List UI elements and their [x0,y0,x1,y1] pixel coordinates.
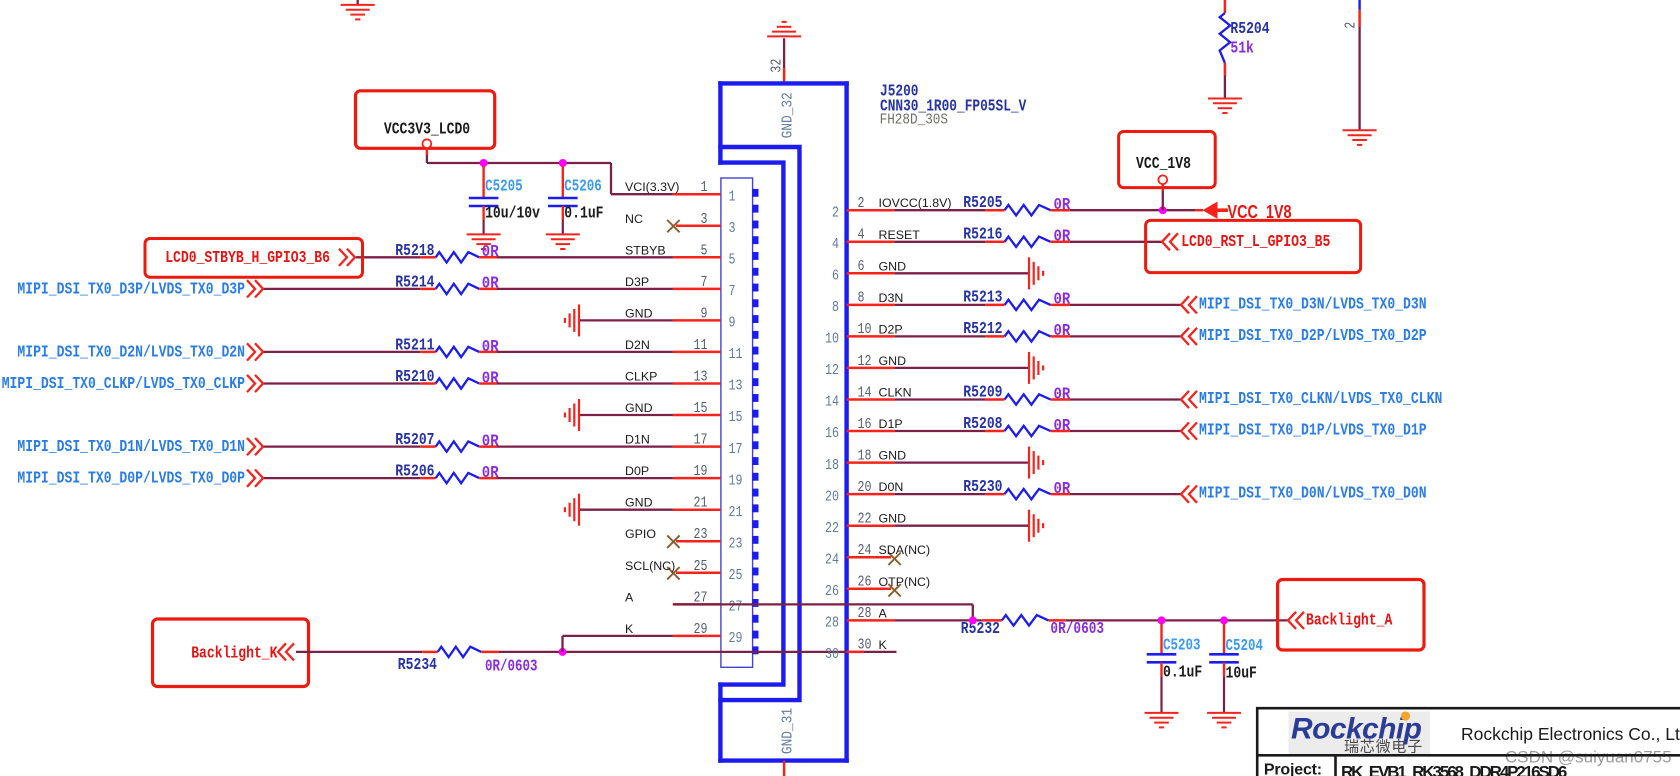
pin 29 K [673,635,721,638]
svg-text:0R: 0R [1054,227,1071,246]
wire [895,335,986,337]
wire VCC_1V8 port to rail [1162,184,1165,191]
wire [497,256,673,258]
svg-text:GND: GND [625,401,653,415]
wire [263,382,420,384]
svg-text:27: 27 [729,599,743,616]
svg-text:MIPI_DSI_TX0_D0N/LVDS_TX0_D0N: MIPI_DSI_TX0_D0N/LVDS_TX0_D0N [1199,484,1427,503]
svg-text:26: 26 [825,583,839,600]
svg-text:28: 28 [858,605,872,622]
svg-text:MIPI_DSI_TX0_CLKP/LVDS_TX0_CLK: MIPI_DSI_TX0_CLKP/LVDS_TX0_CLKP [2,374,245,393]
svg-text:3: 3 [701,211,708,228]
net label MIPI_DSI_TX0_CLKN/LVDS_TX0_CLKN [1181,391,1189,408]
svg-text:32: 32 [769,59,786,73]
connector J5200 outline [718,81,849,763]
svg-text:0R: 0R [482,463,499,482]
wire to Backlight_A [1066,619,1288,621]
net label MIPI_DSI_TX0_D0N/LVDS_TX0_D0N [1181,486,1189,503]
svg-text:8: 8 [858,290,865,307]
svg-text:D0P: D0P [625,464,649,478]
svg-text:K: K [879,638,888,652]
wire pin32 to ground [783,38,785,68]
svg-text:8: 8 [832,299,839,316]
resistor R5213 [985,304,1004,307]
wire [579,509,673,511]
svg-text:28: 28 [825,615,839,632]
svg-text:0R: 0R [482,274,499,293]
svg-text:D2N: D2N [625,338,650,352]
power arrow VCC_1V8 [1203,202,1218,219]
wire RESET to LCD0_RST [1070,241,1162,243]
svg-text:A: A [625,590,634,604]
svg-text:A: A [879,606,888,620]
svg-text:VCC_1V8: VCC_1V8 [1228,202,1292,222]
svg-text:GND: GND [879,354,907,368]
pin 13 CLKP [673,382,721,385]
off-page connector Backlight_A [1278,580,1424,651]
svg-text:6: 6 [858,258,865,275]
wire [895,493,986,495]
svg-text:24: 24 [858,542,872,559]
svg-text:17: 17 [694,432,708,449]
pin 18 GND [847,461,895,464]
wire [263,351,420,353]
pin 5 STBYB [673,256,721,259]
svg-text:11: 11 [694,337,708,354]
svg-text:30: 30 [858,637,872,654]
svg-text:2: 2 [1343,22,1360,29]
svg-text:D2P: D2P [879,322,903,336]
svg-text:0.1uF: 0.1uF [564,204,603,223]
svg-text:20: 20 [858,479,872,496]
svg-text:C5206: C5206 [564,177,602,196]
svg-text:GND: GND [625,306,653,320]
wire [579,414,673,416]
wire [895,430,986,432]
ground [1028,510,1030,542]
svg-text:GND: GND [879,259,907,273]
pin 11 D2N [673,351,721,354]
pin 27 A [673,603,721,606]
pin 7 D3P [673,288,721,291]
svg-text:MIPI_DSI_TX0_D2N/LVDS_TX0_D2N: MIPI_DSI_TX0_D2N/LVDS_TX0_D2N [17,342,245,361]
resistor R5204 [1224,0,1227,13]
ground (top left) [357,0,359,5]
resistor R5214 [420,288,435,291]
wire [1070,493,1181,495]
svg-text:10uF: 10uF [1226,664,1257,683]
svg-text:17: 17 [729,441,743,458]
svg-text:13: 13 [694,369,708,386]
svg-text:0R: 0R [1054,384,1071,403]
wire [895,398,986,400]
connector pin contacts (dashed) [752,189,758,654]
svg-text:GND: GND [879,449,907,463]
resistor R5205 [985,209,1004,212]
svg-text:11: 11 [729,346,743,363]
junction node VCC_1V8 [1159,206,1167,214]
pin 23 GPIO [676,540,720,543]
svg-text:Backlight_A: Backlight_A [1306,611,1392,630]
connector J5200 inner pin body [721,178,753,667]
svg-text:R5232: R5232 [961,619,1000,638]
pin 25 SCL(NC) [676,572,720,575]
pin 15 GND [673,414,721,417]
ground [1028,257,1030,289]
wire K net [499,651,897,653]
svg-text:5: 5 [729,252,736,269]
svg-text:26: 26 [858,574,872,591]
ground (top right) [1343,129,1377,131]
svg-text:0R: 0R [482,431,499,450]
resistor R5211 [420,351,435,354]
wire [356,256,420,258]
svg-text:VCC_1V8: VCC_1V8 [1136,154,1191,173]
resistor R5208 [985,430,1004,433]
ground [578,304,580,336]
svg-text:5: 5 [701,242,708,259]
svg-text:LCD0_STBYB_H_GPIO3_B6: LCD0_STBYB_H_GPIO3_B6 [165,248,330,267]
pin 28 A [847,619,895,622]
svg-text:14: 14 [858,384,872,401]
svg-text:1: 1 [729,188,736,205]
junction node R5232 input [969,616,977,624]
svg-text:MIPI_DSI_TX0_D1N/LVDS_TX0_D1N: MIPI_DSI_TX0_D1N/LVDS_TX0_D1N [17,437,245,456]
resistor R5210 [420,382,435,385]
pin 10 D2P [847,335,895,338]
svg-text:6: 6 [832,268,839,285]
pin 14 CLKN [847,398,895,401]
resistor R5234 [296,651,422,653]
svg-text:GND: GND [625,496,653,510]
capacitor C5205 [482,166,484,198]
wire rail to pin 1 [610,163,612,194]
wire [895,304,986,306]
svg-text:OTP(NC): OTP(NC) [879,575,931,589]
pin 19 D0P [673,477,721,480]
off-page connector LCD0_RST_L_GPIO3_B5 [1146,220,1361,272]
svg-text:15: 15 [694,400,708,417]
resistor R5209 [985,398,1004,401]
svg-text:25: 25 [729,567,743,584]
wire [895,367,1029,369]
svg-text:SCL(NC): SCL(NC) [625,559,675,573]
junction node K [559,648,567,656]
svg-text:22: 22 [858,511,872,528]
svg-text:29: 29 [729,630,743,647]
svg-text:FH28D_30S: FH28D_30S [880,112,948,129]
svg-text:R5204: R5204 [1230,19,1269,38]
wire [497,382,673,384]
svg-text:4: 4 [832,236,839,253]
ground [578,399,580,431]
svg-text:Rockchip Electronics Co., Ltd: Rockchip Electronics Co., Ltd [1461,724,1680,744]
svg-text:Project:: Project: [1264,762,1322,776]
svg-text:20: 20 [825,488,839,505]
svg-text:C5205: C5205 [485,177,522,196]
pin 31 stub [783,761,786,776]
ground below R5204 [1208,98,1242,100]
svg-text:MIPI_DSI_TX0_D1P/LVDS_TX0_D1P: MIPI_DSI_TX0_D1P/LVDS_TX0_D1P [1199,421,1427,440]
svg-text:D0N: D0N [879,480,904,494]
power port VCC3V3_LCD0 [356,91,495,149]
junction node at C5206 [559,159,567,167]
svg-text:19: 19 [729,472,743,489]
pin 9 GND [673,319,721,322]
svg-text:STBYB: STBYB [625,243,666,257]
pin 17 D1N [673,445,721,448]
svg-text:MIPI_DSI_TX0_D3P/LVDS_TX0_D3P: MIPI_DSI_TX0_D3P/LVDS_TX0_D3P [17,279,245,298]
svg-text:23: 23 [729,536,743,553]
svg-text:16: 16 [858,416,872,433]
wire [895,461,1029,463]
svg-text:10: 10 [858,321,872,338]
resistor R5230 [985,493,1004,496]
svg-text:GND_32: GND_32 [779,92,796,138]
wire to ground (top right) [1358,27,1360,131]
svg-text:12: 12 [825,362,839,379]
svg-text:瑞芯微电子: 瑞芯微电子 [1344,739,1423,756]
wire [497,477,673,479]
svg-text:18: 18 [825,457,839,474]
resistor R5218 [420,256,435,259]
capacitor C5206 [562,166,564,198]
pin 3 NC [676,225,720,228]
pin 22 GND [847,524,895,527]
svg-text:12: 12 [858,353,872,370]
pin 12 GND [847,367,895,370]
svg-text:0R: 0R [482,368,499,387]
svg-text:C5203: C5203 [1163,635,1201,654]
wire VCC3V3_LCD0 to rail [426,148,429,155]
svg-text:0R: 0R [1054,290,1071,309]
junction node at C5204 [1220,616,1228,624]
svg-text:MIPI_DSI_TX0_D0P/LVDS_TX0_D0P: MIPI_DSI_TX0_D0P/LVDS_TX0_D0P [17,469,245,488]
svg-text:RESET: RESET [879,228,921,242]
svg-text:K: K [625,622,634,636]
pin 24 SDA(NC) [847,556,891,559]
svg-text:0R: 0R [1054,479,1071,498]
svg-text:GND: GND [879,512,907,526]
pin 32 stub [783,68,786,83]
svg-text:MIPI_DSI_TX0_D2P/LVDS_TX0_D2P: MIPI_DSI_TX0_D2P/LVDS_TX0_D2P [1199,326,1427,345]
svg-text:15: 15 [729,409,743,426]
pin 8 D3N [847,304,895,307]
pin 2 IOVCC(1.8V) [847,209,895,212]
svg-text:RK_EVB1_RK3568_DDR4P216SD6: RK_EVB1_RK3568_DDR4P216SD6 [1341,763,1567,776]
net label MIPI_DSI_TX0_D2P/LVDS_TX0_D2P [1181,328,1189,345]
title block border [1256,707,1680,776]
pin 6 GND [847,272,895,275]
capacitor C5203 [1160,623,1162,654]
capacitor C5204 [1223,623,1225,654]
Rockchip logo [1289,712,1431,755]
svg-text:VCI(3.3V): VCI(3.3V) [625,180,679,194]
svg-text:0R: 0R [1054,321,1071,340]
wire [895,272,1029,274]
ground [1028,352,1030,384]
wire [579,319,673,321]
svg-text:19: 19 [694,463,708,480]
svg-text:CLKP: CLKP [625,370,657,384]
svg-text:0R: 0R [482,337,499,356]
resistor R5207 [420,445,435,448]
svg-text:Backlight_K: Backlight_K [191,643,277,662]
wire [263,445,420,447]
pin 1 VCI(3.3V) [673,193,721,196]
resistor R5206 [420,477,435,480]
svg-text:0R: 0R [1054,195,1071,214]
svg-text:10: 10 [825,331,839,348]
wire [263,477,420,479]
svg-text:0R: 0R [1054,416,1071,435]
wire [1070,335,1181,337]
svg-text:VCC3V3_LCD0: VCC3V3_LCD0 [384,120,470,139]
svg-text:D1P: D1P [879,417,903,431]
svg-text:0.1uF: 0.1uF [1163,663,1202,682]
pin 20 D0N [847,493,895,496]
wire [497,351,673,353]
svg-text:9: 9 [729,315,736,332]
svg-text:D1N: D1N [625,433,650,447]
svg-text:7: 7 [729,283,736,300]
svg-text:10u/10v: 10u/10v [485,204,540,223]
svg-text:13: 13 [729,378,743,395]
svg-text:22: 22 [825,520,839,537]
svg-text:LCD0_RST_L_GPIO3_B5: LCD0_RST_L_GPIO3_B5 [1181,232,1330,251]
svg-text:MIPI_DSI_TX0_CLKN/LVDS_TX0_CLK: MIPI_DSI_TX0_CLKN/LVDS_TX0_CLKN [1199,389,1442,408]
pin 26 OTP(NC) [847,588,891,591]
wire [263,288,420,290]
svg-text:0R: 0R [482,242,499,261]
wire [1070,430,1181,432]
svg-text:4: 4 [858,227,865,244]
wire [1070,398,1181,400]
pin 16 D1P [847,430,895,433]
wire [895,525,1029,527]
svg-text:29: 29 [694,621,708,638]
resistor R5212 [985,335,1004,338]
net label MIPI_DSI_TX0_D3N/LVDS_TX0_D3N [1181,296,1189,313]
svg-text:3: 3 [729,220,736,237]
pin 30 K [847,651,864,654]
pin 21 GND [673,508,721,511]
component pin stub (top right, pin 2 off-sheet) [1358,0,1360,10]
svg-text:23: 23 [694,526,708,543]
svg-text:25: 25 [694,558,708,575]
wire [1070,304,1181,306]
svg-text:16: 16 [825,425,839,442]
svg-text:24: 24 [825,552,839,569]
wire IOVCC to VCC_1V8 [1070,209,1195,211]
svg-text:R5234: R5234 [398,655,437,674]
svg-text:7: 7 [701,274,708,291]
svg-text:2: 2 [858,195,865,212]
resistor R5232 [895,619,982,621]
ground above connector (inverted) [767,35,801,37]
off-page connector Backlight_K [153,619,309,687]
wire R5204 to ground [1224,76,1226,99]
wire [895,209,986,211]
wire [895,241,986,243]
ground [1028,447,1030,479]
svg-text:1: 1 [701,179,708,196]
svg-text:0R/0603: 0R/0603 [485,656,538,675]
power port VCC_1V8 [1119,132,1216,188]
svg-text:GPIO: GPIO [625,527,656,541]
svg-text:30: 30 [825,646,839,663]
svg-text:GND_31: GND_31 [779,708,796,754]
svg-text:D3P: D3P [625,275,649,289]
svg-text:IOVCC(1.8V): IOVCC(1.8V) [879,196,952,210]
svg-text:SDA(NC): SDA(NC) [879,543,931,557]
svg-text:2: 2 [832,204,839,221]
resistor R5216 [985,241,1004,244]
svg-text:14: 14 [825,394,839,411]
svg-text:18: 18 [858,447,872,464]
svg-text:21: 21 [729,504,743,521]
wire [497,288,673,290]
off-page connector LCD0_STBYB_H_GPIO3_B6 [145,239,363,278]
wire A net (pin 27 crossing) [673,603,973,605]
junction node at C5205 [480,159,488,167]
net label MIPI_DSI_TX0_D1P/LVDS_TX0_D1P [1181,422,1189,439]
wire [497,445,673,447]
ground [578,494,580,526]
svg-text:51k: 51k [1230,39,1254,58]
svg-text:9: 9 [701,305,708,322]
svg-text:C5204: C5204 [1226,636,1264,655]
junction node at C5203 [1158,616,1166,624]
svg-text:CLKN: CLKN [879,386,912,400]
svg-text:MIPI_DSI_TX0_D3N/LVDS_TX0_D3N: MIPI_DSI_TX0_D3N/LVDS_TX0_D3N [1199,294,1427,313]
svg-text:21: 21 [694,495,708,512]
svg-text:NC: NC [625,212,643,226]
pin 4 RESET [847,241,895,244]
wire to pin 29 [561,636,563,652]
svg-text:D3N: D3N [879,291,904,305]
svg-text:0R/0603: 0R/0603 [1050,619,1104,638]
